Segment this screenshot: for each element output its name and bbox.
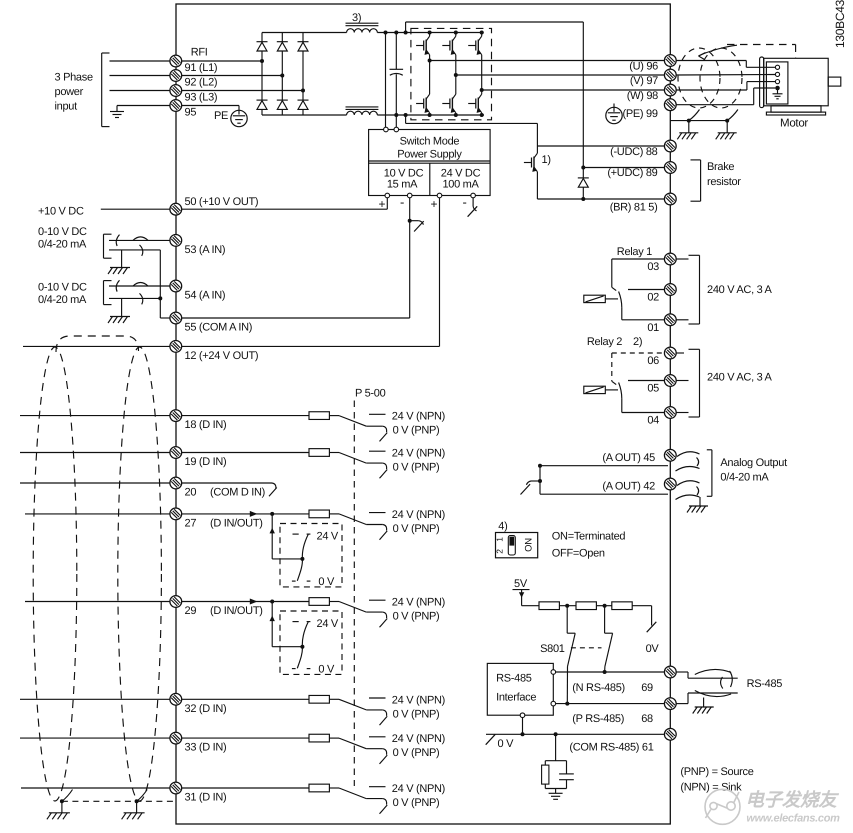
svg-text:Motor: Motor: [780, 118, 808, 130]
svg-text:RFI: RFI: [191, 47, 208, 59]
svg-text:-: -: [400, 195, 404, 210]
svg-text:54 (A IN): 54 (A IN): [185, 290, 226, 302]
svg-text:www.elecfans.com: www.elecfans.com: [746, 813, 840, 825]
svg-text:24 V (NPN): 24 V (NPN): [392, 783, 445, 795]
svg-text:06: 06: [647, 355, 659, 367]
svg-text:Brake: Brake: [707, 161, 734, 173]
svg-text:0 V (PNP): 0 V (PNP): [393, 611, 440, 623]
svg-text:240 V AC, 3 A: 240 V AC, 3 A: [707, 284, 773, 296]
svg-text:55 (COM A IN): 55 (COM A IN): [185, 322, 253, 334]
svg-text:91 (L1): 91 (L1): [185, 62, 218, 74]
svg-text:电子发烧友: 电子发烧友: [745, 789, 839, 810]
svg-text:24 V (NPN): 24 V (NPN): [392, 694, 445, 706]
svg-text:(N RS-485): (N RS-485): [572, 682, 625, 694]
svg-text:3): 3): [352, 12, 361, 24]
svg-text:68: 68: [641, 713, 653, 725]
svg-text:0/4-20 mA: 0/4-20 mA: [720, 472, 769, 484]
svg-text:Analog Output: Analog Output: [720, 457, 787, 469]
svg-text:33 (D IN): 33 (D IN): [185, 742, 227, 754]
svg-text:-: -: [463, 195, 467, 210]
svg-text:29: 29: [185, 605, 197, 617]
svg-text:240 V AC, 3 A: 240 V AC, 3 A: [707, 372, 773, 384]
svg-text:ON=Terminated: ON=Terminated: [552, 531, 626, 543]
svg-text:24 V: 24 V: [317, 618, 339, 630]
svg-text:(BR) 81 5): (BR) 81 5): [610, 202, 658, 214]
svg-text:0/4-20 mA: 0/4-20 mA: [38, 294, 87, 306]
svg-text:0 V (PNP): 0 V (PNP): [393, 523, 440, 535]
svg-text:5V: 5V: [514, 578, 528, 590]
svg-text:24 V (NPN): 24 V (NPN): [392, 411, 445, 423]
svg-text:04: 04: [647, 415, 659, 427]
svg-text:93 (L3): 93 (L3): [185, 91, 218, 103]
svg-text:(COM RS-485) 61: (COM RS-485) 61: [569, 742, 653, 754]
svg-text:Relay 2: Relay 2: [587, 336, 622, 348]
svg-text:69: 69: [641, 682, 653, 694]
svg-text:24 V: 24 V: [317, 530, 339, 542]
svg-text:0 V (PNP): 0 V (PNP): [393, 797, 440, 809]
svg-text:20: 20: [185, 487, 197, 499]
svg-text:(PNP) = Source: (PNP) = Source: [680, 766, 753, 778]
svg-text:(A OUT) 42: (A OUT) 42: [602, 481, 655, 493]
svg-text:(U) 96: (U) 96: [629, 61, 658, 73]
svg-text:1: 1: [495, 537, 505, 542]
svg-text:24 V (NPN): 24 V (NPN): [392, 448, 445, 460]
svg-text:24 V (NPN): 24 V (NPN): [392, 509, 445, 521]
svg-text:0 V (PNP): 0 V (PNP): [393, 708, 440, 720]
svg-text:01: 01: [647, 322, 659, 334]
svg-text:31 (D IN): 31 (D IN): [185, 792, 227, 804]
svg-text:(V) 97: (V) 97: [630, 75, 658, 87]
svg-text:24 V (NPN): 24 V (NPN): [392, 597, 445, 609]
svg-text:1): 1): [542, 154, 551, 166]
svg-text:power: power: [55, 86, 84, 98]
svg-text:0 V (PNP): 0 V (PNP): [393, 747, 440, 759]
svg-text:(COM D IN): (COM D IN): [210, 487, 265, 499]
svg-text:24 V (NPN): 24 V (NPN): [392, 733, 445, 745]
svg-text:2): 2): [633, 336, 642, 348]
svg-text:RS-485: RS-485: [747, 678, 783, 690]
svg-text:92 (L2): 92 (L2): [185, 76, 218, 88]
svg-text:4): 4): [498, 521, 507, 533]
svg-text:Switch Mode: Switch Mode: [400, 136, 460, 148]
svg-text:(+UDC) 89: (+UDC) 89: [607, 167, 657, 179]
svg-text:+10 V DC: +10 V DC: [38, 206, 84, 218]
svg-text:ON: ON: [524, 538, 535, 552]
svg-text:PE: PE: [214, 110, 228, 122]
svg-text:12 (+24 V OUT): 12 (+24 V OUT): [185, 350, 259, 362]
svg-text:02: 02: [647, 292, 659, 304]
svg-text:19 (D IN): 19 (D IN): [185, 456, 227, 468]
svg-text:input: input: [55, 101, 78, 113]
svg-text:0 V: 0 V: [318, 664, 335, 676]
svg-text:130BC438: 130BC438: [833, 0, 847, 48]
svg-text:RS-485: RS-485: [496, 673, 532, 685]
svg-text:P 5-00: P 5-00: [355, 388, 386, 400]
svg-text:+: +: [431, 197, 438, 211]
svg-text:Power Supply: Power Supply: [397, 149, 462, 161]
svg-text:27: 27: [185, 518, 197, 530]
svg-text:(-UDC) 88: (-UDC) 88: [610, 146, 658, 158]
svg-text:(D IN/OUT): (D IN/OUT): [210, 605, 263, 617]
svg-text:OFF=Open: OFF=Open: [552, 548, 605, 560]
svg-text:0 V: 0 V: [318, 576, 335, 588]
svg-text:3 Phase: 3 Phase: [55, 72, 93, 84]
svg-text:15 mA: 15 mA: [387, 179, 418, 191]
svg-text:18 (D IN): 18 (D IN): [185, 419, 227, 431]
svg-text:95: 95: [185, 106, 197, 118]
svg-text:0V: 0V: [646, 643, 660, 655]
svg-text:50 (+10 V OUT): 50 (+10 V OUT): [185, 196, 259, 208]
svg-text:0/4-20 mA: 0/4-20 mA: [38, 239, 87, 251]
svg-text:100 mA: 100 mA: [442, 179, 479, 191]
svg-text:(A OUT) 45: (A OUT) 45: [602, 452, 655, 464]
svg-text:(D IN/OUT): (D IN/OUT): [210, 518, 263, 530]
svg-text:2: 2: [495, 549, 505, 554]
svg-text:32 (D IN): 32 (D IN): [185, 703, 227, 715]
svg-text:Interface: Interface: [496, 692, 536, 704]
svg-text:(PE) 99: (PE) 99: [623, 108, 658, 120]
svg-text:(W) 98: (W) 98: [627, 90, 658, 102]
svg-text:0 V: 0 V: [498, 738, 515, 750]
svg-text:03: 03: [647, 261, 659, 273]
svg-text:53 (A IN): 53 (A IN): [185, 244, 226, 256]
svg-text:0-10 V DC: 0-10 V DC: [38, 226, 87, 238]
svg-text:05: 05: [647, 383, 659, 395]
svg-text:S801: S801: [540, 643, 565, 655]
svg-text:0-10 V DC: 0-10 V DC: [38, 282, 87, 294]
svg-text:(P RS-485): (P RS-485): [572, 713, 624, 725]
svg-text:resistor: resistor: [707, 176, 741, 188]
svg-text:0 V (PNP): 0 V (PNP): [393, 425, 440, 437]
svg-text:Relay 1: Relay 1: [617, 246, 652, 258]
svg-text:0 V (PNP): 0 V (PNP): [393, 462, 440, 474]
